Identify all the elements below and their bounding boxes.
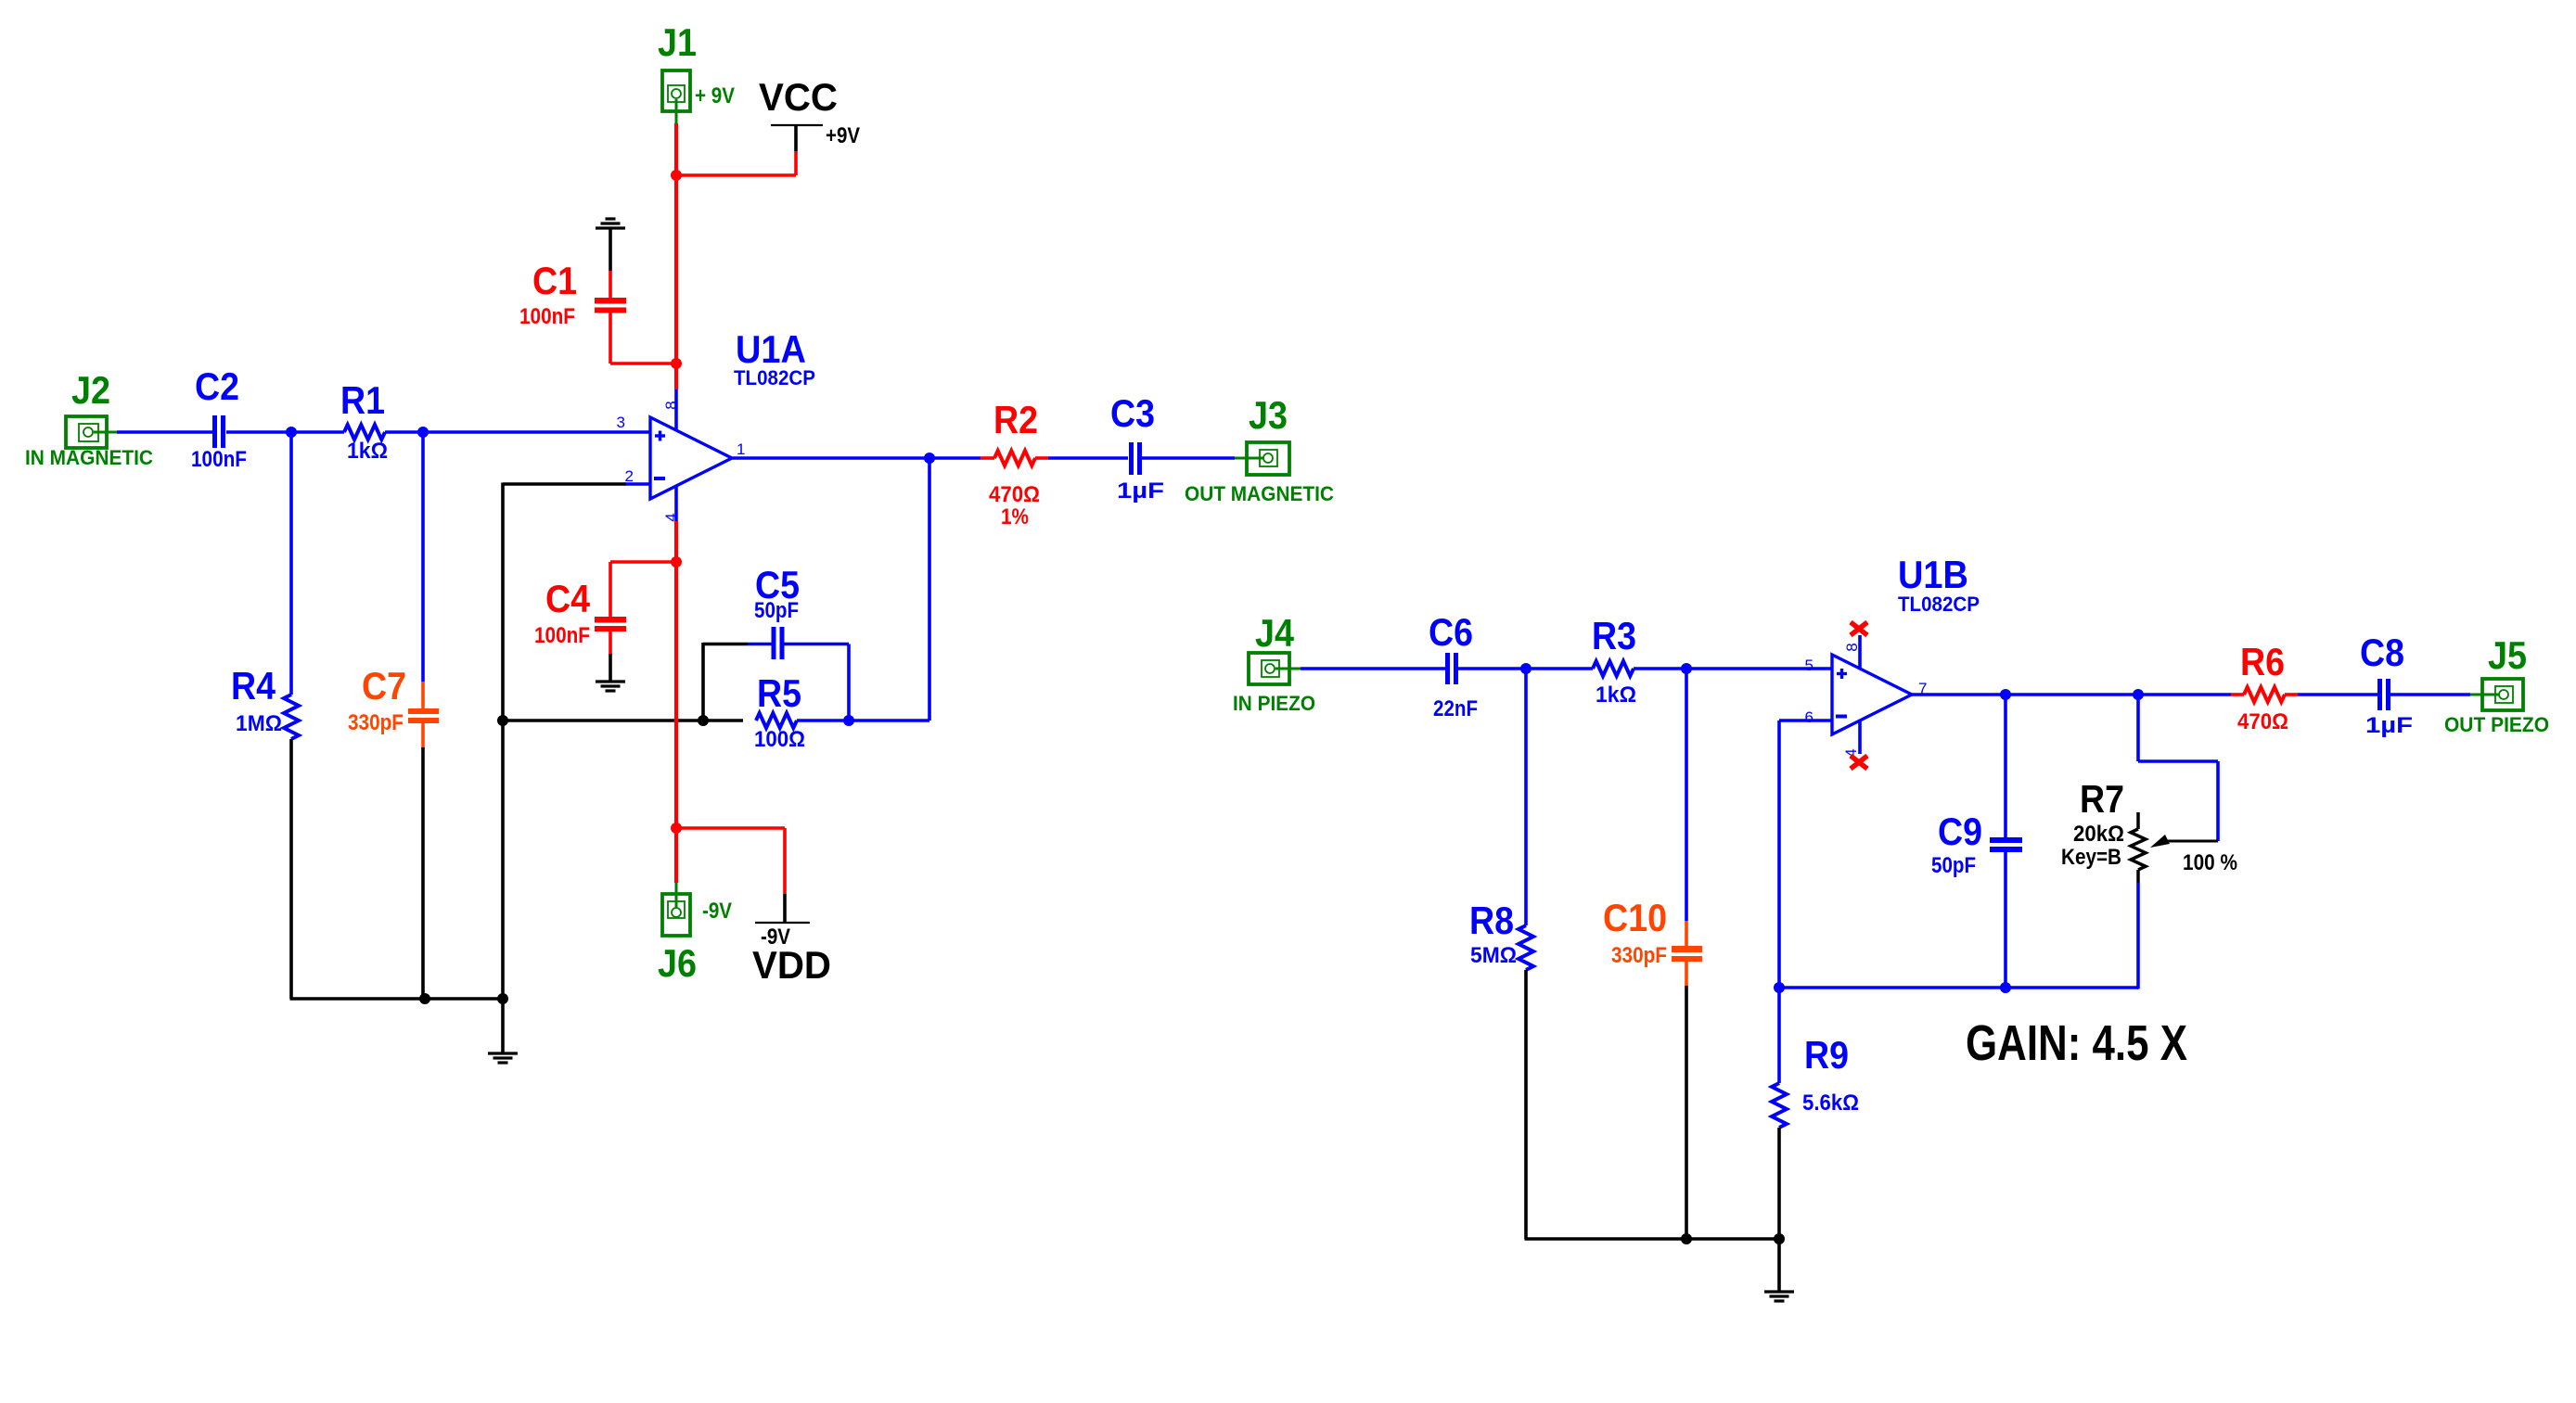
connector J1 (662, 70, 690, 111)
pin 8 stub U1A (674, 389, 678, 431)
svg-text:C1: C1 (532, 259, 577, 302)
wire C4 branch (610, 560, 676, 564)
wire U1A output (732, 456, 980, 460)
svg-text:1kΩ: 1kΩ (347, 439, 388, 464)
svg-text:R8: R8 (1469, 899, 1514, 942)
node R8 branch junction (1520, 663, 1532, 674)
wire pin4 down rail (674, 521, 678, 883)
svg-text:C8: C8 (2360, 631, 2404, 674)
svg-text:100Ω: 100Ω (754, 727, 805, 752)
svg-text:C3: C3 (1110, 391, 1155, 435)
svg-text:OUT MAGNETIC: OUT MAGNETIC (1185, 482, 1334, 505)
svg-text:8: 8 (662, 401, 680, 409)
wire J1 down rail (674, 123, 678, 389)
pin 8 label U1B (1843, 643, 1861, 651)
wire to VCC symbol (676, 173, 796, 177)
node R7 junction (2133, 689, 2144, 700)
node C10 branch junction (1681, 663, 1692, 674)
svg-text:J1: J1 (658, 20, 697, 64)
resistor R2 (980, 456, 994, 460)
svg-text:3: 3 (617, 414, 625, 431)
wire R5 right (797, 719, 849, 722)
no-connect X pin 8 (1851, 622, 1867, 635)
svg-text:IN MAGNETIC: IN MAGNETIC (25, 446, 153, 469)
svg-text:C9: C9 (1938, 810, 1982, 853)
svg-text:100nF: 100nF (519, 304, 575, 329)
svg-text:2: 2 (625, 467, 634, 485)
node C9 junction (2000, 689, 2011, 700)
svg-text:C4: C4 (545, 577, 591, 620)
wire feedback to output riser (849, 719, 929, 722)
svg-text:R6: R6 (2240, 640, 2285, 683)
svg-text:1kΩ: 1kΩ (1596, 682, 1636, 708)
node VDD branch junction (671, 823, 682, 834)
wire R3 to U1B pin5 (1634, 667, 1832, 670)
svg-text:-9V: -9V (702, 899, 732, 924)
svg-text:R7: R7 (2080, 777, 2124, 821)
svg-text:J2: J2 (71, 368, 110, 412)
node C9 bottom junction (2000, 982, 2011, 993)
svg-text:50pF: 50pF (754, 598, 799, 623)
wire C8 to J5 (2390, 693, 2470, 696)
pin 4 label U1B (1842, 748, 1860, 757)
wire to VDD symbol (676, 826, 785, 830)
svg-text:1µF: 1µF (2365, 713, 2413, 738)
ground symbol GND2 (1764, 1290, 1794, 1293)
capacitor C10 (1672, 946, 1702, 952)
capacitor C7 (408, 708, 439, 714)
wire R2 to C3 (1048, 456, 1128, 460)
svg-text:GAIN: 4.5 X: GAIN: 4.5 X (1966, 1015, 2187, 1071)
svg-text:100nF: 100nF (191, 447, 247, 472)
connector J5 (2482, 679, 2523, 710)
pin 4 stub U1B (1858, 721, 1862, 754)
connector J2 (66, 416, 107, 448)
svg-text:VDD: VDD (752, 943, 831, 987)
svg-text:5: 5 (1805, 657, 1813, 674)
wire node to C7 (421, 432, 425, 682)
wire feedback row (503, 719, 743, 722)
svg-text:5MΩ: 5MΩ (1470, 943, 1517, 968)
op-amp U1B (1832, 655, 1912, 734)
svg-text:470Ω: 470Ω (989, 482, 1040, 507)
wire R8 to bottom rail (1524, 970, 1528, 1239)
capacitor C5 (772, 627, 776, 659)
svg-text:330pF: 330pF (1611, 943, 1667, 968)
wire ground riser (501, 721, 505, 1052)
node C4 branch junction (671, 556, 682, 568)
connector J4 (1249, 653, 1289, 684)
svg-text:R5: R5 (757, 671, 801, 715)
svg-text:J3: J3 (1249, 393, 1288, 437)
wire R7 bottom riser (2136, 883, 2140, 989)
node R5/C5 junction (843, 715, 854, 726)
node C10 bottom junction (1681, 1233, 1692, 1244)
wire U1B pin6 (1779, 719, 1832, 722)
svg-text:+9V: +9V (826, 123, 860, 148)
wire C7 to bottom rail (421, 723, 425, 747)
node C5 left junction (698, 715, 709, 726)
potentiometer R7 (2136, 812, 2140, 829)
wire R7 wiper loop (2136, 695, 2140, 761)
pin 4 stub U1A (674, 486, 678, 521)
wire pin2 riser (501, 483, 505, 721)
wire U1B output (1912, 693, 2231, 696)
capacitor C1 (595, 298, 626, 304)
node R9 bottom junction (1774, 1233, 1785, 1244)
resistor R6 (2231, 693, 2244, 696)
svg-text:J5: J5 (2488, 633, 2527, 677)
svg-text:C6: C6 (1429, 610, 1473, 654)
wire C4 to ground (609, 631, 612, 654)
svg-text:C10: C10 (1603, 896, 1667, 939)
svg-text:50pF: 50pF (1931, 853, 1976, 878)
wire R9 to bottom rail (1777, 1128, 1781, 1239)
svg-text:R1: R1 (340, 378, 385, 422)
node pin2/feedback junction (497, 715, 508, 726)
svg-text:C7: C7 (362, 664, 406, 708)
connector J3 (1247, 442, 1289, 475)
wire C1 to rail (609, 312, 612, 364)
capacitor C6 (1445, 653, 1450, 684)
pin 8 label U1A (662, 401, 680, 409)
svg-text:TL082CP: TL082CP (734, 366, 815, 389)
svg-text:TL082CP: TL082CP (1898, 593, 1980, 616)
wiper arrow R7 (2167, 840, 2218, 843)
wire C10 to bottom rail (1685, 962, 1688, 986)
svg-text:+ 9V: + 9V (695, 83, 735, 108)
svg-text:470Ω: 470Ω (2237, 709, 2288, 734)
svg-text:22nF: 22nF (1433, 696, 1478, 721)
node C7 bottom junction (419, 993, 430, 1004)
svg-text:1MΩ: 1MΩ (236, 711, 282, 736)
wire ground to C1 (609, 229, 612, 271)
svg-text:OUT PIEZO: OUT PIEZO (2444, 713, 2549, 736)
ground symbol above C1 (596, 226, 625, 229)
svg-text:1: 1 (737, 440, 745, 458)
svg-text:R2: R2 (993, 398, 1038, 441)
wire node to R8 (1524, 669, 1528, 925)
power symbol VCC (771, 124, 823, 126)
wire node to C10 (1685, 669, 1688, 921)
resistor R4 (284, 695, 299, 739)
wire C6 to R3 (1458, 667, 1593, 670)
wire C9 bottom (2004, 852, 2007, 988)
no-connect X pin 4 (1851, 756, 1867, 769)
svg-text:5.6kΩ: 5.6kΩ (1802, 1091, 1859, 1116)
wire C2 to R1 (226, 430, 344, 434)
svg-text:4: 4 (662, 513, 680, 521)
svg-text:J6: J6 (658, 941, 697, 985)
capacitor C2 (212, 415, 217, 448)
svg-text:6: 6 (1805, 708, 1813, 726)
svg-text:330pF: 330pF (348, 710, 404, 735)
pin 8 stub U1B (1858, 635, 1862, 668)
node junction C2/R4 (286, 427, 297, 438)
wire C3 to J3 (1142, 456, 1235, 460)
svg-text:100nF: 100nF (534, 623, 590, 648)
resistor R1 (344, 425, 385, 440)
wire R1 to U1A pin3 (385, 430, 650, 434)
node output junction U1A (924, 453, 935, 464)
connector J6 (662, 894, 690, 936)
svg-text:VCC: VCC (759, 75, 838, 119)
wire R6 to C8 (2298, 693, 2377, 696)
svg-text:20kΩ: 20kΩ (2073, 822, 2124, 847)
node junction R1/C7 (417, 427, 429, 438)
capacitor C4 (595, 617, 626, 623)
node VCC branch junction (671, 170, 682, 181)
pin 4 label U1A (662, 513, 680, 521)
wire node to R4 (289, 432, 293, 695)
node pin6 bottom junction (1774, 982, 1785, 993)
wire J2 to C2 (117, 430, 212, 434)
wire R4 to bottom rail (289, 739, 293, 999)
wire to ground GND2 (1777, 1239, 1781, 1291)
ground symbol GND1 (488, 1052, 518, 1054)
op-amp U1A (650, 417, 732, 499)
wire C5 left riser (701, 643, 705, 721)
node C1 junction (671, 358, 682, 369)
power symbol VDD (755, 922, 810, 924)
svg-text:Key=B: Key=B (2061, 845, 2121, 870)
svg-text:J4: J4 (1255, 611, 1295, 655)
svg-text:U1B: U1B (1898, 553, 1968, 596)
svg-text:1µF: 1µF (1117, 478, 1164, 504)
capacitor C9 (1990, 837, 2022, 843)
svg-text:R3: R3 (1592, 614, 1636, 657)
node bottom rail junction (497, 993, 508, 1004)
capacitor C3 (1129, 442, 1134, 475)
svg-text:R4: R4 (231, 664, 276, 708)
svg-text:R9: R9 (1804, 1033, 1849, 1077)
resistor R8 (1519, 925, 1533, 970)
svg-text:IN PIEZO: IN PIEZO (1233, 692, 1315, 715)
resistor R5 (756, 713, 797, 728)
wire J4 to C6 (1301, 667, 1445, 670)
wire U1A pin2 (624, 482, 650, 486)
svg-text:8: 8 (1843, 643, 1861, 651)
resistor R3 (1593, 661, 1634, 676)
svg-text:1%: 1% (1001, 504, 1029, 529)
wire bottom blue rail (1779, 986, 2138, 989)
capacitor C8 (2377, 679, 2382, 710)
wire C5 right (785, 643, 850, 646)
svg-text:100 %: 100 % (2183, 850, 2237, 875)
ground symbol below C4 (596, 680, 625, 682)
wire node to R9 (1777, 988, 1781, 1083)
wire C9 top (2004, 695, 2007, 837)
svg-text:U1A: U1A (736, 327, 806, 371)
resistor R9 (1772, 1083, 1787, 1128)
svg-text:C2: C2 (195, 364, 239, 408)
